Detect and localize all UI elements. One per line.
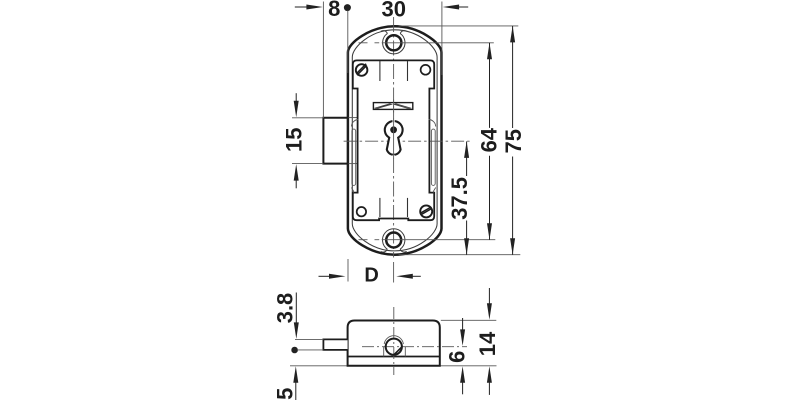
dim D: right-pointing arrow — [319, 274, 346, 279]
cylinder (cam) — [384, 336, 403, 355]
svg-text:14: 14 — [475, 331, 500, 356]
plate hole bottom-left — [357, 207, 366, 216]
dot reference — [291, 347, 298, 354]
svg-text:3.8: 3.8 — [273, 293, 298, 324]
dim 15: top outside arrow pointing down — [294, 93, 299, 117]
lock case plate outline — [353, 60, 434, 220]
bottom mounting screw hole — [359, 229, 496, 252]
dim 75: line and arrows — [510, 26, 515, 255]
bolt (side view) — [323, 339, 347, 350]
vertical centerline of top view — [393, 17, 395, 258]
dim 6: down arrow to centerline — [460, 318, 465, 346]
lock case outer stadium outline — [348, 26, 442, 254]
lock case inner outline — [352, 30, 437, 251]
svg-text:15: 15 — [282, 128, 307, 152]
dim 6: up arrow to surface — [460, 366, 465, 394]
vertical centerline bottom view — [393, 307, 395, 375]
extension line top of case (for 75) — [399, 25, 519, 27]
svg-text:75: 75 — [501, 129, 526, 153]
plate bottom recess verticals — [379, 198, 381, 217]
svg-text:6: 6 — [444, 351, 469, 363]
down arrow — [294, 293, 299, 339]
top mounting screw hole (bold circle + notched thin ring) — [359, 31, 494, 54]
follower window with hatching — [373, 100, 412, 113]
svg-text:30: 30 — [382, 0, 406, 22]
cylinder housing verticals — [383, 347, 385, 357]
horizontal centerline bottom view — [362, 346, 467, 348]
extension line bottom of case (for 75) — [399, 254, 521, 256]
dim 15: bottom outside arrow pointing up — [294, 164, 299, 188]
plate screw top-left (slotted) — [356, 64, 368, 76]
dim 37.5: line and arrows — [464, 141, 469, 254]
dim D: left tick — [347, 259, 349, 282]
left flange slot — [351, 120, 358, 193]
dim 15: extension lines — [292, 117, 323, 119]
svg-text:64: 64 — [477, 127, 502, 152]
extension line from body top — [441, 319, 497, 321]
svg-text:D: D — [364, 265, 378, 287]
keyhole — [385, 119, 403, 159]
right flange slot — [429, 120, 436, 193]
plate screw bottom-right (slotted) — [420, 205, 432, 217]
extension lines from bolt — [295, 338, 323, 340]
mounting surface line — [290, 365, 497, 367]
dim 14: down arrow to body top — [487, 288, 492, 320]
extension from dot to case — [347, 11, 349, 74]
base plate line — [348, 356, 440, 358]
dim 8: arrow pointing right — [295, 5, 323, 10]
svg-text:5: 5 — [272, 388, 297, 400]
dim 64: line and arrows — [487, 43, 492, 240]
body of lock (side view) — [348, 321, 440, 366]
dim 14: up arrow to surface — [487, 366, 492, 395]
plate hole top-right — [421, 65, 431, 75]
dim 30: right extension line — [441, 2, 443, 76]
dim D: left-pointing arrow — [396, 274, 421, 279]
svg-text:8: 8 — [328, 0, 340, 21]
dim 8/30: reference dot at case edge — [344, 4, 351, 11]
svg-text:37.5: 37.5 — [447, 177, 472, 220]
horizontal centerline of top view — [344, 140, 470, 142]
dim 8: extension line at bolt left edge — [322, 2, 324, 118]
bolt (latch) protruding left — [323, 118, 358, 164]
dim 30: arrow pointing left — [443, 5, 469, 10]
plate top recess verticals — [379, 61, 381, 81]
